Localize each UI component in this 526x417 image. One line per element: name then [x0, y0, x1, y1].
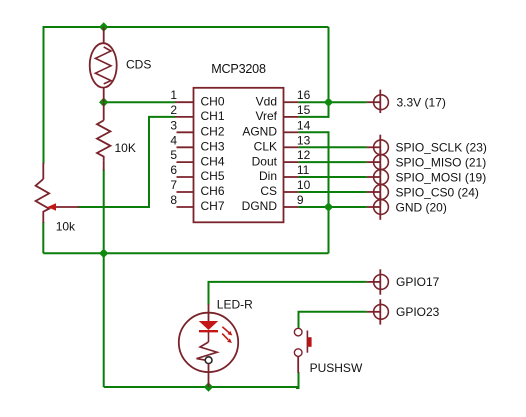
- svg-text:10k: 10k: [56, 220, 76, 234]
- wire Vref vertical up to Vdd node: [328, 102, 330, 118]
- pin 1 stub CH0: [175, 101, 194, 103]
- pin 10 stub CS: [284, 191, 299, 193]
- svg-text:6: 6: [170, 163, 177, 177]
- photoresistor CDS lead bottom: [103, 88, 105, 103]
- potentiometer 10k lead top: [42, 163, 44, 179]
- svg-text:MCP3208: MCP3208: [211, 62, 266, 76]
- wire top rail down to Vdd node: [328, 27, 330, 102]
- potentiometer wiper lead: [55, 206, 79, 208]
- wire DGND to GND connector: [298, 206, 366, 208]
- wire GND horizontal run: [43, 252, 328, 254]
- node junction CDS bottom / 10K / CH0: [99, 98, 108, 107]
- svg-text:4: 4: [170, 133, 177, 147]
- resistor R 10K lead top: [103, 103, 105, 120]
- svg-text:Dout: Dout: [252, 154, 278, 168]
- svg-text:5: 5: [170, 148, 177, 162]
- connector SPIO_CS0 circle: [374, 185, 389, 200]
- svg-text:9: 9: [297, 193, 304, 207]
- pin 5 stub CH4: [177, 161, 194, 163]
- pushbutton PUSHSW bottom terminal: [294, 349, 302, 357]
- LED light arrow 2: [222, 334, 228, 340]
- pin 3 stub CH2: [177, 131, 194, 133]
- connector SPIO_CS0 pin line: [367, 191, 381, 193]
- pin 12 stub Dout: [284, 161, 299, 163]
- LED pin circle: [205, 357, 212, 364]
- svg-text:3: 3: [170, 118, 177, 132]
- svg-text:CH3: CH3: [201, 140, 225, 154]
- connector SPIO_SCLK pin line: [367, 146, 381, 148]
- potentiometer 10k zigzag: [36, 179, 50, 215]
- wire wiper to pin 2 CH1: [148, 116, 175, 118]
- svg-text:CH7: CH7: [201, 199, 225, 213]
- wire pot wiper horizontal: [78, 206, 149, 208]
- photoresistor CDS body: [90, 43, 117, 87]
- svg-text:1: 1: [170, 88, 177, 102]
- wire wiper vertical up to CH1: [148, 117, 150, 208]
- wire top 3.3V rail: [44, 26, 329, 28]
- wire Vref horizontal: [298, 116, 328, 118]
- connector SPIO_CS0 cross line: [379, 179, 381, 204]
- connector 3.3V pin line: [367, 101, 381, 103]
- svg-text:CDS: CDS: [126, 58, 151, 72]
- wire pot bottom lead green: [42, 222, 44, 253]
- wire CLK to SPIO_SCLK: [298, 146, 366, 148]
- LED internal resistor link: [208, 332, 210, 342]
- svg-text:CH2: CH2: [201, 125, 225, 139]
- wire GPIO23 to push switch top: [299, 312, 367, 329]
- svg-text:10: 10: [297, 178, 311, 192]
- connector SPIO_SCLK cross line: [379, 135, 381, 160]
- pin 4 stub CH3: [177, 146, 194, 148]
- LED light arrow 1 head: [228, 331, 233, 336]
- connector SPIO_MOSI pin line: [367, 176, 381, 178]
- svg-text:CH1: CH1: [201, 109, 225, 123]
- wire left vertical to potentiometer: [43, 26, 45, 164]
- svg-text:CS: CS: [260, 184, 277, 198]
- svg-text:GND (20): GND (20): [396, 200, 447, 214]
- LED triangle: [199, 321, 218, 330]
- pushbutton PUSHSW bottom lead: [297, 356, 299, 373]
- connector SPIO_MISO cross line: [379, 150, 381, 175]
- wire 10K bottom down through GND node to bottom rail: [103, 170, 105, 388]
- pushbutton PUSHSW actuator line: [306, 331, 308, 353]
- wire push switch bottom to bottom rail: [296, 372, 299, 388]
- connector 3.3V cross line: [379, 90, 381, 113]
- node junction Vdd/Vref/3.3V: [324, 98, 333, 107]
- LED cathode bar: [199, 330, 218, 332]
- svg-text:SPIO_MISO (21): SPIO_MISO (21): [396, 155, 487, 169]
- svg-text:CH0: CH0: [201, 94, 225, 108]
- LED cathode lead: [208, 364, 210, 387]
- wire Dout to SPIO_MISO: [298, 161, 366, 163]
- svg-text:AGND: AGND: [242, 125, 277, 139]
- pin 6 stub CH5: [177, 176, 194, 178]
- svg-text:GPIO17: GPIO17: [396, 275, 440, 289]
- connector SPIO_MISO circle: [374, 155, 389, 170]
- connector 3.3V circle: [374, 95, 389, 110]
- node junction LED cathode on bottom rail: [204, 382, 213, 391]
- svg-text:CLK: CLK: [254, 140, 277, 154]
- wire AGND horizontal: [298, 131, 328, 133]
- pin 8 stub CH7: [177, 206, 194, 208]
- wire bottom rail: [104, 386, 299, 388]
- potentiometer wiper arrowhead: [48, 203, 57, 211]
- pushbutton PUSHSW plunger: [307, 337, 311, 347]
- svg-text:SPIO_SCLK (23): SPIO_SCLK (23): [396, 141, 487, 155]
- connector SPIO_SCLK circle: [374, 140, 389, 155]
- wire Din to SPIO_MOSI: [298, 176, 366, 178]
- connector GPIO17 cross line: [379, 269, 381, 294]
- LED anode lead inside: [208, 304, 210, 321]
- pin 2 stub CH1: [175, 116, 194, 118]
- svg-text:16: 16: [297, 88, 311, 102]
- svg-text:Vref: Vref: [255, 109, 277, 123]
- svg-text:13: 13: [297, 133, 311, 147]
- LED light arrow 1: [222, 327, 229, 333]
- node junction GND run left: [99, 249, 108, 258]
- svg-text:2: 2: [170, 103, 177, 117]
- pin 11 stub Din: [284, 176, 299, 178]
- node junction top CDS tee: [99, 22, 108, 31]
- svg-text:14: 14: [297, 118, 311, 132]
- connector GND cross line: [379, 194, 381, 219]
- svg-text:15: 15: [297, 103, 311, 117]
- svg-text:3.3V (17): 3.3V (17): [397, 96, 446, 110]
- pin 14 stub AGND: [284, 131, 299, 133]
- photoresistor CDS zigzag: [95, 47, 111, 84]
- pushbutton PUSHSW top terminal: [294, 328, 302, 336]
- connector SPIO_MOSI circle: [374, 170, 389, 185]
- svg-text:Din: Din: [259, 169, 277, 183]
- connector GPIO23 circle: [374, 304, 389, 319]
- svg-text:CH6: CH6: [201, 184, 225, 198]
- connector GPIO23 cross line: [379, 299, 381, 324]
- connector GPIO23 pin line: [367, 311, 381, 313]
- svg-text:10K: 10K: [115, 141, 136, 155]
- svg-text:12: 12: [297, 148, 311, 162]
- LED light arrow 2 head: [227, 338, 232, 343]
- svg-text:7: 7: [170, 178, 177, 192]
- LED internal resistor zigzag: [197, 342, 218, 360]
- pin 16 stub Vdd: [284, 101, 299, 103]
- connector SPIO_MISO pin line: [367, 161, 381, 163]
- node junction DGND/GND: [324, 202, 333, 211]
- svg-text:SPIO_MOSI (19): SPIO_MOSI (19): [396, 170, 487, 184]
- svg-text:PUSHSW: PUSHSW: [310, 361, 363, 375]
- svg-text:8: 8: [170, 193, 177, 207]
- svg-text:GPIO23: GPIO23: [396, 305, 440, 319]
- photoresistor CDS lead top: [103, 27, 105, 44]
- connector GND pin line: [367, 206, 381, 208]
- svg-text:SPIO_CS0 (24): SPIO_CS0 (24): [396, 185, 479, 199]
- wire Vdd to 3.3V connector: [298, 101, 366, 103]
- svg-text:11: 11: [297, 163, 310, 177]
- resistor R 10K zigzag: [97, 120, 110, 160]
- svg-text:DGND: DGND: [242, 199, 278, 213]
- pin 13 stub CLK: [284, 146, 299, 148]
- wire AGND vertical down to DGND node and GND run: [328, 131, 330, 253]
- resistor R 10K lead bottom: [103, 160, 105, 170]
- connector GND circle: [374, 200, 389, 215]
- svg-text:LED-R: LED-R: [217, 297, 253, 311]
- svg-text:CH4: CH4: [201, 154, 225, 168]
- connector GPIO17 pin line: [367, 281, 381, 283]
- pin 7 stub CH6: [177, 191, 194, 193]
- wire CDS bottom node to pin 1 CH0: [104, 101, 175, 103]
- wire CS to SPIO_CS0: [298, 191, 366, 193]
- pin 15 stub Vref: [284, 116, 299, 118]
- op IC U1 MCP3208 body: [194, 88, 284, 223]
- pin 9 stub DGND: [284, 206, 299, 208]
- connector GPIO17 circle: [374, 275, 389, 290]
- potentiometer 10k lead bottom: [42, 215, 44, 224]
- svg-text:CH5: CH5: [201, 169, 225, 183]
- svg-text:Vdd: Vdd: [256, 94, 277, 108]
- LED D1 body circle: [179, 313, 238, 372]
- wire LED anode up and across to GPIO17: [209, 282, 367, 305]
- connector SPIO_MOSI cross line: [379, 164, 381, 189]
